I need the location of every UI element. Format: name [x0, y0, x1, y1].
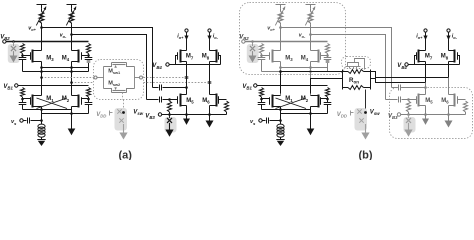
wire vo- branch to Ron left port	[311, 79, 343, 94]
node	[279, 66, 282, 69]
svg-text:M3: M3	[46, 56, 54, 63]
capacitor right	[324, 102, 332, 104]
wire vo+ feedback	[281, 28, 392, 88]
wire rail drop left	[280, 68, 282, 96]
capacitor coupling upper	[153, 87, 159, 89]
disabled switch gate branch (gray box)	[355, 108, 368, 131]
node gate M1	[21, 98, 24, 101]
node	[407, 98, 410, 101]
transistor M6	[454, 94, 456, 107]
ground M5	[422, 119, 429, 125]
gray ground arrow below switch branch	[123, 124, 125, 133]
resistor bias M2	[86, 88, 90, 98]
ground below inductor	[276, 139, 284, 141]
capacitor input coupling	[262, 120, 265, 122]
capacitor coupling lower	[147, 99, 159, 101]
resistor bias M1	[20, 88, 24, 98]
transistor M3	[272, 50, 274, 63]
transistor M4	[318, 50, 320, 63]
disabled branch below VB3 (gray box)	[165, 117, 177, 133]
capacitor coupling upper	[392, 87, 398, 89]
node gate M2	[87, 98, 90, 101]
supply bar left	[37, 4, 47, 6]
varactor left	[280, 8, 282, 11]
transistor M7	[418, 50, 420, 63]
ground arrow tail	[307, 129, 315, 136]
transistor M7	[180, 50, 182, 63]
node	[70, 70, 73, 73]
node gate M2	[326, 98, 329, 101]
capacitor right	[324, 57, 332, 59]
node gate M4	[326, 54, 329, 57]
svg-text:VB1: VB1	[242, 84, 252, 91]
node vo+	[40, 26, 43, 29]
wire M5 source	[186, 106, 188, 119]
svg-text:M5: M5	[425, 98, 433, 105]
node	[168, 113, 171, 116]
switch coupling dashed wire upper	[42, 77, 94, 79]
dashed outline resonator core	[240, 3, 346, 75]
svg-text:VDD: VDD	[337, 112, 347, 119]
wire source rail lower	[262, 71, 328, 73]
switch box left port	[94, 76, 97, 79]
supply bar right	[67, 4, 77, 6]
svg-text:M4: M4	[301, 56, 309, 63]
svg-text:M6: M6	[441, 98, 449, 105]
transistor Msw1	[104, 63, 135, 67]
node vo-	[70, 33, 73, 36]
transistor M1	[32, 95, 34, 108]
resistor bias M6	[463, 101, 467, 112]
transistor M6	[216, 94, 218, 107]
wire rail drop right	[71, 68, 73, 96]
svg-text:VB4: VB4	[152, 63, 162, 70]
ground M6	[445, 121, 453, 128]
wire M8 drain drop	[209, 62, 211, 95]
inductor	[280, 121, 282, 125]
wire M5 source	[425, 106, 427, 119]
node	[447, 113, 450, 116]
wire vo- feedback	[311, 35, 386, 100]
wire VB1 rail	[257, 85, 328, 87]
svg-text:vo-: vo-	[60, 32, 67, 39]
svg-text:Msw1: Msw1	[108, 68, 121, 75]
capacitor right	[85, 57, 93, 59]
wire source rail 1	[23, 109, 72, 111]
resistor bias M5	[167, 101, 171, 112]
transistor M5	[418, 94, 420, 107]
transistor M2	[78, 95, 80, 108]
svg-text:VDD: VDD	[96, 112, 106, 119]
svg-text:VB3: VB3	[388, 114, 398, 121]
wire VB1 rail	[18, 85, 89, 87]
node	[279, 70, 282, 73]
switch coupling dashed wire lower	[72, 82, 94, 84]
svg-text:io+: io+	[416, 34, 423, 41]
transistor M1	[272, 95, 274, 108]
wire rail drop right	[310, 68, 312, 96]
disabled branch X (gray box)	[247, 44, 259, 63]
node	[309, 66, 312, 69]
capacitor left	[258, 102, 266, 104]
wire Ron right port to M7	[371, 62, 426, 83]
wire	[310, 25, 312, 51]
disabled branch X (gray box)	[8, 44, 20, 63]
supply bar left	[276, 4, 286, 6]
capacitor left	[19, 57, 27, 59]
wire to Vsw node	[365, 90, 367, 113]
node	[70, 112, 73, 115]
switch wiring left riser	[103, 67, 105, 89]
node	[40, 108, 43, 111]
wire VB3 rail	[401, 114, 466, 116]
node	[424, 86, 427, 89]
svg-text:vo+: vo+	[267, 25, 275, 32]
ghost switch glyph gray	[348, 63, 359, 67]
resistor bias M3	[20, 44, 24, 54]
svg-text:M8: M8	[441, 54, 449, 61]
node	[279, 108, 282, 111]
wire source rail 1	[262, 109, 311, 111]
wire source rail upper	[42, 67, 89, 69]
ground arrow tail	[68, 129, 76, 136]
dashed outline disabled gm stage	[390, 88, 473, 139]
transistor M8	[216, 50, 218, 63]
svg-text:io-: io-	[452, 34, 458, 41]
svg-text:Vsw: Vsw	[370, 109, 380, 116]
node	[185, 86, 188, 89]
wire M8 drain drop gray	[448, 78, 450, 95]
resistor bias M5	[406, 101, 410, 112]
node	[70, 66, 73, 69]
varactor right	[310, 8, 312, 11]
disabled branch below VB3 (gray box)	[404, 117, 416, 133]
svg-text:Vsw: Vsw	[133, 109, 143, 116]
node	[251, 40, 254, 43]
port marker gray square	[326, 60, 330, 63]
wire source rail upper	[281, 67, 328, 69]
capacitor input coupling	[23, 120, 26, 122]
transistor M2	[318, 95, 320, 108]
node	[309, 70, 312, 73]
port marker gray square	[87, 60, 91, 63]
wire rail drop left	[41, 68, 43, 96]
node vs injection	[40, 119, 43, 122]
node gate M1	[260, 98, 263, 101]
switch box right port	[140, 76, 143, 79]
resistor bias M1	[259, 88, 263, 98]
capacitor right	[85, 102, 93, 104]
svg-text:io+: io+	[177, 34, 184, 41]
node	[407, 113, 410, 116]
wire VB3 rail	[162, 114, 227, 116]
inductor	[41, 121, 43, 125]
wire source rail 2	[42, 113, 89, 115]
resistor bias M4	[86, 44, 90, 54]
dashed gate wire to Vsw	[122, 93, 124, 100]
svg-text:M6: M6	[202, 98, 210, 105]
ground M6	[206, 121, 214, 128]
wire	[41, 5, 43, 9]
wire M6 source	[209, 106, 211, 121]
ghost switch dashed outline	[342, 57, 371, 69]
svg-text:M5: M5	[186, 98, 194, 105]
supply bar right	[306, 4, 316, 6]
wire	[71, 25, 73, 51]
svg-text:(a): (a)	[119, 150, 133, 161]
svg-text:M7: M7	[425, 54, 433, 61]
capacitor left	[19, 102, 27, 104]
svg-text:vo+: vo+	[28, 25, 36, 32]
svg-text:vs: vs	[250, 119, 256, 126]
resistor Ron upper	[342, 70, 344, 90]
svg-text:M4: M4	[62, 56, 70, 63]
wire M7 drain drop gray	[425, 83, 427, 95]
svg-text:M7: M7	[186, 54, 194, 61]
transistor M4	[78, 50, 80, 63]
svg-text:vo-: vo-	[299, 32, 306, 39]
node	[424, 113, 427, 116]
resistor bias M6	[224, 101, 228, 112]
ground below inductor	[37, 139, 45, 141]
wire VB2 rail	[245, 41, 327, 43]
node vo-	[309, 33, 312, 36]
svg-text:Msw2: Msw2	[108, 80, 121, 87]
wire vo+ feedback	[42, 28, 153, 88]
cross-coupling wires	[37, 98, 68, 109]
node	[40, 70, 43, 73]
node gate M3	[260, 54, 263, 57]
wire	[41, 25, 43, 51]
node gate M4	[87, 54, 90, 57]
switch coupling dashed wire to M8 column	[144, 82, 210, 84]
node vs injection	[279, 119, 282, 122]
resistor bias M2	[325, 88, 329, 98]
node	[309, 112, 312, 115]
wire vo+ branch through Ron to M8	[281, 72, 343, 94]
svg-text:M8: M8	[202, 54, 210, 61]
wire	[310, 5, 312, 9]
wire source rail 2	[281, 113, 328, 115]
transistor M5	[180, 94, 182, 107]
transistor M8	[454, 50, 456, 63]
switch wiring right riser	[134, 67, 136, 89]
node vo+	[279, 26, 282, 29]
capacitor left	[258, 57, 266, 59]
cross-coupling wires	[276, 98, 307, 109]
ground M5	[183, 119, 190, 125]
svg-text:VB1: VB1	[3, 84, 13, 91]
svg-text:io-: io-	[213, 34, 219, 41]
capacitor coupling lower	[386, 99, 398, 101]
node	[279, 70, 282, 73]
varactor right	[71, 8, 73, 11]
wire source rail lower	[23, 71, 89, 73]
disabled switch gate branch (gray box)	[115, 108, 128, 131]
svg-text:(b): (b)	[359, 150, 373, 161]
svg-text:vs: vs	[11, 119, 17, 126]
wire	[280, 5, 282, 9]
varactor left	[41, 8, 43, 11]
resistor bias M3	[259, 44, 263, 54]
wire M7 drain drop	[186, 62, 188, 95]
resistor bias M4	[325, 44, 329, 54]
switch box dashed outline	[94, 60, 144, 100]
resistor Ron lower	[343, 87, 349, 89]
wire M6 source	[448, 106, 450, 121]
node	[168, 98, 171, 101]
switch coupling dashed wire to M7 column	[144, 77, 187, 79]
node	[12, 40, 15, 43]
gray ground arrow below Vsw	[365, 124, 367, 133]
svg-text:VB3: VB3	[145, 114, 155, 121]
node	[208, 113, 211, 116]
wire vo- feedback	[72, 35, 147, 100]
wire VB4 rail	[408, 64, 459, 66]
wire	[71, 5, 73, 9]
node gate M3	[21, 54, 24, 57]
node	[185, 113, 188, 116]
wire VB2 rail	[6, 41, 88, 43]
wire	[280, 25, 282, 51]
transistor Msw2	[104, 89, 135, 93]
svg-text:M3: M3	[285, 56, 293, 63]
transistor M3	[32, 50, 34, 63]
node	[40, 66, 43, 69]
wire VB4 rail	[169, 64, 220, 66]
